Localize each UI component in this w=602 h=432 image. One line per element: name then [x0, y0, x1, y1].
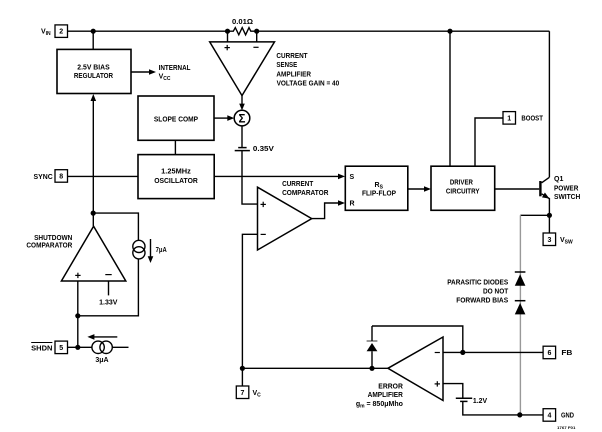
svg-text:COMPARATOR: COMPARATOR	[26, 243, 72, 250]
block slope comp	[138, 96, 214, 140]
transistor Q1 power switch	[539, 176, 580, 233]
reference 1.33V stub on minus input	[99, 281, 118, 306]
wire VC node to pin 7	[241, 368, 243, 386]
svg-text:SWITCH: SWITCH	[554, 194, 580, 201]
svg-text:REGULATOR: REGULATOR	[74, 73, 113, 80]
svg-text:1.25MHz: 1.25MHz	[161, 169, 191, 176]
battery 0.35V offset	[235, 146, 275, 153]
label parasitic diodes note	[447, 279, 509, 304]
svg-text:4: 4	[547, 413, 551, 420]
wire oscillator output to S input arrow	[214, 174, 345, 180]
svg-text:DO NOT: DO NOT	[483, 289, 509, 296]
svg-text:3μA: 3μA	[95, 357, 108, 364]
svg-text:FORWARD BIAS: FORWARD BIAS	[456, 297, 508, 304]
svg-text:SENSE: SENSE	[276, 62, 297, 69]
diode D2 parasitic	[515, 301, 526, 315]
svg-text:Σ: Σ	[239, 113, 246, 125]
wire SHDN line	[68, 346, 93, 348]
svg-text:COMPARATOR: COMPARATOR	[282, 190, 328, 197]
node junction emitter VSW	[547, 213, 552, 218]
wire comparator minus input from VC node	[242, 234, 257, 368]
node junction VC	[240, 366, 245, 371]
wire 7uA source down and left to plus input	[78, 259, 139, 316]
wire feedback loop top	[372, 326, 463, 352]
current source I2 3uA	[87, 334, 128, 364]
svg-text:Q1: Q1	[554, 176, 563, 183]
node junction feedback diode	[369, 366, 374, 371]
block oscillator 1.25MHz	[138, 155, 214, 199]
node junction SHDN	[75, 345, 80, 350]
battery 1.2V reference	[456, 398, 488, 405]
wire boost pin to driver top	[475, 118, 503, 166]
pin 5 SHDN box	[31, 341, 67, 354]
wire VC node to error amplifier output	[242, 367, 388, 369]
wire 0.35V to comparator plus input	[242, 151, 258, 205]
svg-text:2.5V BIAS: 2.5V BIAS	[77, 65, 110, 72]
svg-text:1.2V: 1.2V	[473, 398, 488, 405]
svg-text:GND: GND	[561, 413, 574, 420]
wire top rail to driver top	[449, 31, 451, 166]
svg-text:2: 2	[59, 29, 63, 36]
wire VIN to bias regulator top	[92, 31, 94, 49]
wire VIN top rail right segment	[257, 30, 550, 32]
resistor 0.01 ohm sense	[225, 19, 259, 35]
svg-text:FLIP-FLOP: FLIP-FLOP	[362, 190, 396, 197]
node junction top rail to driver	[447, 29, 452, 34]
pin 3 VSW box	[543, 233, 573, 246]
node junction parasitic branch GND	[517, 412, 522, 417]
op-amp error amplifier	[356, 337, 443, 409]
svg-text:PARASITIC DIODES: PARASITIC DIODES	[447, 279, 508, 286]
wire slope comp to summer arrow	[214, 115, 234, 121]
svg-text:SHUTDOWN: SHUTDOWN	[34, 235, 72, 242]
current source I1 7uA	[133, 239, 167, 263]
svg-text:7: 7	[241, 390, 245, 397]
svg-text:1767 F01: 1767 F01	[557, 425, 576, 430]
op-amp shutdown comparator	[26, 226, 125, 281]
wire collector vertical from top rail	[548, 31, 550, 177]
diode D3 feedback clamp	[367, 326, 378, 368]
svg-text:INTERNAL: INTERNAL	[159, 65, 192, 72]
wire comparator output to R input arrow	[312, 200, 345, 218]
wire shutdown comparator to bias regulator with up arrow	[91, 94, 97, 226]
block driver circuitry	[431, 166, 495, 210]
svg-text:1: 1	[507, 115, 511, 122]
wire slope comp to oscillator	[174, 140, 176, 154]
svg-text:gm = 850μMho: gm = 850μMho	[356, 401, 403, 410]
svg-text:VIN: VIN	[41, 29, 51, 38]
node junction FB minus input	[460, 350, 465, 355]
svg-text:CIRCUITRY: CIRCUITRY	[446, 188, 480, 195]
wire emitter node to parasitic branch	[520, 214, 549, 216]
svg-text:S: S	[350, 174, 355, 181]
svg-text:6: 6	[547, 350, 551, 357]
pin 4 GND box	[543, 409, 574, 422]
pin 8 SYNC box	[34, 170, 68, 183]
svg-text:ERROR: ERROR	[378, 384, 403, 391]
svg-text:VCC: VCC	[159, 73, 171, 82]
wire SYNC to oscillator	[68, 175, 139, 177]
svg-text:SHDN: SHDN	[31, 345, 52, 352]
svg-text:CURRENT: CURRENT	[276, 53, 308, 60]
svg-text:BOOST: BOOST	[521, 116, 543, 123]
svg-text:1.33V: 1.33V	[99, 299, 118, 306]
wire flip-flop to driver arrow	[408, 186, 431, 192]
svg-text:AMPLIFIER: AMPLIFIER	[276, 71, 311, 78]
op-amp current sense amplifier	[210, 31, 340, 95]
svg-text:0.35V: 0.35V	[253, 146, 274, 153]
block U bias regulator 2.5V	[57, 49, 131, 93]
svg-text:OSCILLATOR: OSCILLATOR	[154, 178, 198, 185]
svg-text:FB: FB	[561, 350, 572, 357]
summer node sigma	[234, 110, 250, 126]
wire junction to 7uA source	[93, 213, 138, 240]
svg-text:POWER: POWER	[554, 185, 578, 192]
wire summer to 0.35V battery	[241, 126, 243, 147]
wire plus input vertical to SHDN line	[77, 281, 79, 347]
svg-text:3: 3	[547, 237, 551, 244]
op-amp current comparator	[258, 181, 329, 250]
svg-text:CURRENT: CURRENT	[282, 181, 314, 188]
svg-text:8: 8	[59, 174, 63, 181]
node junction shutdown branch	[91, 211, 96, 216]
pin 6 FB box	[543, 346, 572, 359]
svg-text:VSW: VSW	[560, 237, 573, 246]
svg-text:5: 5	[59, 345, 63, 352]
svg-text:DRIVER: DRIVER	[450, 180, 473, 187]
wire VIN top rail left segment	[68, 30, 228, 32]
wire error amp plus input to 1.2V	[443, 384, 463, 399]
svg-text:R: R	[350, 201, 355, 208]
wire amplifier output to summer arrow	[239, 96, 245, 111]
svg-text:7μA: 7μA	[156, 247, 167, 254]
block RS flip-flop	[345, 166, 408, 210]
node junction VIN-bias	[91, 29, 96, 34]
pin 2 VIN box	[55, 25, 68, 38]
svg-text:VC: VC	[253, 390, 262, 399]
wire driver output to Q1 base	[495, 188, 540, 190]
wire 1.2V to GND line	[463, 401, 543, 415]
svg-text:SYNC: SYNC	[34, 174, 53, 181]
node junction plus input / 7uA return	[75, 313, 80, 318]
diode D1 parasitic	[515, 272, 526, 286]
pin 7 VC box	[236, 386, 261, 399]
wire parasitic branch gray vertical	[519, 215, 521, 415]
wire error amp minus input to FB pin	[443, 351, 543, 353]
svg-text:0.01Ω: 0.01Ω	[232, 19, 253, 26]
pin 1 BOOST box	[503, 112, 544, 125]
wire internal VCC output arrow	[131, 65, 191, 82]
svg-text:SLOPE COMP: SLOPE COMP	[154, 116, 198, 123]
svg-text:VOLTAGE GAIN = 40: VOLTAGE GAIN = 40	[277, 81, 340, 88]
svg-text:AMPLIFIER: AMPLIFIER	[368, 392, 403, 399]
